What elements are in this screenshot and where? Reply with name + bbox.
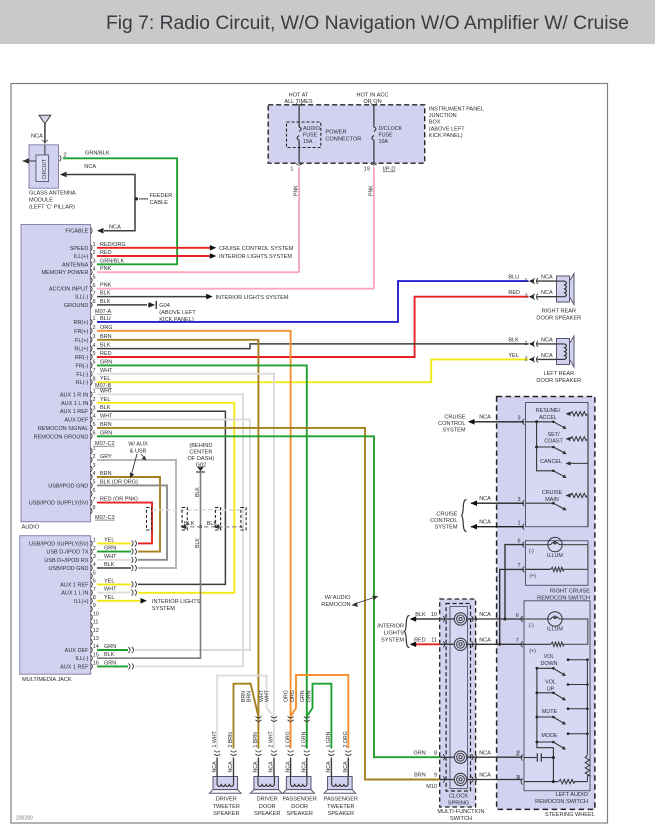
svg-text:NCA: NCA xyxy=(479,773,491,779)
svg-text:6: 6 xyxy=(517,538,520,544)
svg-text:DOOR SPEAKER: DOOR SPEAKER xyxy=(536,316,581,322)
svg-text:KICK PANEL): KICK PANEL) xyxy=(429,133,463,139)
svg-text:1 BRN: 1 BRN xyxy=(253,732,259,748)
svg-text:INTERIOR LIGHTS SYSTEM: INTERIOR LIGHTS SYSTEM xyxy=(216,295,289,301)
svg-text:NCA: NCA xyxy=(31,134,43,140)
svg-text:1: 1 xyxy=(93,538,96,544)
svg-text:4: 4 xyxy=(93,562,96,568)
svg-text:M07-C3: M07-C3 xyxy=(95,515,115,521)
svg-text:AUX 1 REF: AUX 1 REF xyxy=(60,582,89,588)
svg-text:DOOR: DOOR xyxy=(259,804,276,810)
svg-text:2: 2 xyxy=(524,294,527,300)
svg-text:W/ AUX: W/ AUX xyxy=(128,442,148,448)
svg-text:8: 8 xyxy=(93,376,96,382)
svg-text:AUX DEF: AUX DEF xyxy=(65,648,89,654)
svg-text:6: 6 xyxy=(93,283,96,289)
svg-text:6: 6 xyxy=(93,431,96,437)
svg-text:6: 6 xyxy=(93,488,96,494)
svg-text:1: 1 xyxy=(517,521,520,527)
svg-text:2 WHT: 2 WHT xyxy=(269,731,275,748)
svg-text:POWER: POWER xyxy=(325,130,346,136)
svg-text:NCA: NCA xyxy=(253,761,259,772)
svg-text:6: 6 xyxy=(516,613,519,619)
svg-text:COAST: COAST xyxy=(544,439,563,445)
svg-text:ILLUM: ILLUM xyxy=(547,627,563,633)
svg-text:1: 1 xyxy=(93,242,96,248)
svg-text:D/CLOCK: D/CLOCK xyxy=(379,126,403,132)
svg-text:I/P-D: I/P-D xyxy=(383,167,396,173)
svg-text:SPEAKER: SPEAKER xyxy=(286,811,312,817)
svg-text:RIGHT CRUISE: RIGHT CRUISE xyxy=(550,588,590,594)
svg-text:BLK: BLK xyxy=(104,652,115,658)
svg-text:ANTENNA: ANTENNA xyxy=(62,262,89,268)
svg-text:NCA: NCA xyxy=(109,225,121,231)
svg-text:1: 1 xyxy=(93,389,96,395)
svg-text:ORG: ORG xyxy=(290,690,296,702)
svg-text:(-): (-) xyxy=(529,548,534,554)
svg-text:ORG: ORG xyxy=(284,690,290,702)
svg-text:2: 2 xyxy=(93,325,96,331)
svg-text:MEMORY POWER: MEMORY POWER xyxy=(41,270,88,276)
svg-text:(+): (+) xyxy=(529,574,536,580)
svg-text:8: 8 xyxy=(434,750,437,756)
svg-text:WHT: WHT xyxy=(265,689,271,702)
svg-text:FUSE: FUSE xyxy=(303,133,318,139)
svg-text:ACCEL: ACCEL xyxy=(539,415,557,421)
svg-text:9: 9 xyxy=(93,603,96,609)
svg-text:CONNECTOR: CONNECTOR xyxy=(325,137,361,143)
svg-text:BLK: BLK xyxy=(104,562,115,568)
svg-text:1: 1 xyxy=(93,445,96,451)
svg-text:NCA: NCA xyxy=(285,761,291,772)
svg-text:Fig 7: Radio Circuit, W/O Navi: Fig 7: Radio Circuit, W/O Navigation W/O… xyxy=(106,13,629,34)
svg-text:DRIVER: DRIVER xyxy=(257,797,278,803)
svg-text:MULTI-FUNCTION: MULTI-FUNCTION xyxy=(437,809,484,815)
svg-text:2: 2 xyxy=(93,546,96,552)
svg-text:ILL(+): ILL(+) xyxy=(74,254,89,260)
svg-text:CIRCUIT: CIRCUIT xyxy=(42,159,48,179)
svg-text:1 WHT: 1 WHT xyxy=(212,731,218,748)
svg-text:10: 10 xyxy=(431,612,437,618)
svg-text:SPEAKER: SPEAKER xyxy=(254,811,280,817)
svg-text:JUNCTION: JUNCTION xyxy=(429,113,457,119)
svg-text:CRUISE CONTROL SYSTEM: CRUISE CONTROL SYSTEM xyxy=(219,246,294,252)
svg-text:AUX 1 REF: AUX 1 REF xyxy=(60,409,89,415)
svg-text:7: 7 xyxy=(93,587,96,593)
svg-text:CENTER: CENTER xyxy=(189,449,212,455)
svg-text:RESUME/: RESUME/ xyxy=(536,408,561,414)
svg-text:NCA: NCA xyxy=(479,638,491,644)
svg-text:INTERIOR LIGHTS SYSTEM: INTERIOR LIGHTS SYSTEM xyxy=(219,254,292,260)
svg-text:ILL(-): ILL(-) xyxy=(75,656,88,662)
svg-text:FEEDER: FEEDER xyxy=(150,193,173,199)
svg-text:13: 13 xyxy=(93,636,99,642)
svg-text:RR(-): RR(-) xyxy=(75,355,89,361)
svg-text:6: 6 xyxy=(93,579,96,585)
svg-text:2 GRN: 2 GRN xyxy=(302,731,308,747)
svg-text:OF DASH): OF DASH) xyxy=(188,456,215,462)
svg-text:4: 4 xyxy=(93,343,96,349)
svg-text:FR(+): FR(+) xyxy=(74,329,88,335)
svg-text:PNK: PNK xyxy=(368,185,374,196)
svg-text:RIGHT REAR: RIGHT REAR xyxy=(542,309,576,315)
svg-text:BLU: BLU xyxy=(508,275,519,281)
svg-text:SPEED: SPEED xyxy=(70,246,89,252)
svg-text:LEFT REAR: LEFT REAR xyxy=(543,371,574,377)
svg-text:M10: M10 xyxy=(426,784,437,790)
svg-text:9: 9 xyxy=(434,773,437,779)
svg-text:CABLE: CABLE xyxy=(150,200,169,206)
svg-text:3: 3 xyxy=(93,334,96,340)
svg-text:BLK: BLK xyxy=(415,612,426,618)
svg-text:ACC/ON INPUT: ACC/ON INPUT xyxy=(49,287,89,293)
svg-text:MUTE: MUTE xyxy=(542,709,558,715)
svg-text:M07-C2: M07-C2 xyxy=(95,441,115,447)
svg-text:5: 5 xyxy=(93,275,96,281)
svg-text:GROUND: GROUND xyxy=(64,303,88,309)
svg-text:BLK: BLK xyxy=(100,343,111,349)
svg-text:BLK: BLK xyxy=(100,299,111,305)
svg-text:(BEHIND: (BEHIND xyxy=(189,443,212,449)
svg-text:MODE: MODE xyxy=(541,733,558,739)
svg-text:7: 7 xyxy=(517,563,520,569)
svg-text:DOOR: DOOR xyxy=(291,804,308,810)
svg-text:(ABOVE LEFT: (ABOVE LEFT xyxy=(429,126,465,132)
svg-text:VOL: VOL xyxy=(544,654,555,660)
svg-text:CONTROL: CONTROL xyxy=(438,421,465,427)
svg-text:LIGHTS: LIGHTS xyxy=(384,631,404,637)
svg-text:1: 1 xyxy=(290,167,293,173)
svg-text:G04: G04 xyxy=(159,303,170,309)
svg-text:8: 8 xyxy=(93,299,96,305)
svg-text:6: 6 xyxy=(93,360,96,366)
svg-text:YEL: YEL xyxy=(508,353,518,359)
svg-text:NCA: NCA xyxy=(541,337,553,343)
svg-text:5: 5 xyxy=(93,570,96,576)
svg-text:2: 2 xyxy=(517,751,520,757)
svg-text:M07-A: M07-A xyxy=(95,309,112,315)
svg-text:PASSENGER: PASSENGER xyxy=(282,797,316,803)
svg-text:INTERIOR LIGHTS: INTERIOR LIGHTS xyxy=(152,599,201,605)
svg-text:NCA: NCA xyxy=(541,290,553,296)
svg-text:NCA: NCA xyxy=(326,761,332,772)
svg-text:NCA: NCA xyxy=(343,761,349,772)
svg-text:15A: 15A xyxy=(303,139,313,145)
svg-text:NCA: NCA xyxy=(269,761,275,772)
svg-text:3: 3 xyxy=(93,463,96,469)
svg-text:(+): (+) xyxy=(529,648,536,654)
svg-text:(-): (-) xyxy=(529,623,534,629)
svg-text:MODULE: MODULE xyxy=(29,198,53,204)
svg-text:3: 3 xyxy=(517,497,520,503)
svg-text:TWEETER: TWEETER xyxy=(327,804,354,810)
svg-text:NCA: NCA xyxy=(479,612,491,618)
svg-text:AUX 1 L IN: AUX 1 L IN xyxy=(61,401,88,407)
svg-text:ILL(+): ILL(+) xyxy=(74,599,89,605)
svg-text:SPEAKER: SPEAKER xyxy=(213,811,239,817)
svg-text:HOT AT: HOT AT xyxy=(289,93,309,99)
svg-text:11: 11 xyxy=(93,620,99,626)
svg-text:USB/IPOD GND: USB/IPOD GND xyxy=(48,566,88,572)
svg-text:7: 7 xyxy=(516,638,519,644)
svg-text:ILLUM: ILLUM xyxy=(547,553,563,559)
svg-text:19: 19 xyxy=(364,167,370,173)
svg-text:DOOR SPEAKER: DOOR SPEAKER xyxy=(536,378,581,384)
svg-text:SYSTEM: SYSTEM xyxy=(381,638,404,644)
svg-text:SYSTEM: SYSTEM xyxy=(442,428,465,434)
svg-text:SET/: SET/ xyxy=(548,432,560,438)
svg-text:CONTROL: CONTROL xyxy=(430,518,457,524)
svg-text:ALL TIMES: ALL TIMES xyxy=(284,99,313,105)
svg-text:10: 10 xyxy=(93,611,99,617)
svg-text:NCA: NCA xyxy=(228,761,234,772)
svg-text:CRUISE: CRUISE xyxy=(436,512,457,518)
svg-text:SWITCH: SWITCH xyxy=(450,816,472,822)
svg-text:8: 8 xyxy=(93,505,96,511)
svg-text:& USB: & USB xyxy=(130,449,147,455)
svg-text:7: 7 xyxy=(93,291,96,297)
svg-text:PNK: PNK xyxy=(294,185,300,196)
svg-text:NCA: NCA xyxy=(479,415,491,421)
svg-text:GRN: GRN xyxy=(413,750,425,756)
svg-text:VOL: VOL xyxy=(545,680,556,686)
svg-text:2: 2 xyxy=(524,356,527,362)
svg-text:RL(+): RL(+) xyxy=(74,347,88,353)
svg-text:AUX 1 L IN: AUX 1 L IN xyxy=(61,591,88,597)
svg-text:NCA: NCA xyxy=(479,496,491,502)
svg-text:GLASS ANTENNA: GLASS ANTENNA xyxy=(29,191,76,197)
svg-text:2: 2 xyxy=(93,250,96,256)
svg-text:1 ORG: 1 ORG xyxy=(285,731,291,747)
svg-text:USB/IPOD SUPPLY(5V): USB/IPOD SUPPLY(5V) xyxy=(29,541,89,547)
svg-text:AUX 1 R IN: AUX 1 R IN xyxy=(60,392,88,398)
svg-text:BLK: BLK xyxy=(100,291,111,297)
svg-text:TWEETER: TWEETER xyxy=(213,804,240,810)
svg-text:NCA: NCA xyxy=(302,761,308,772)
svg-text:12: 12 xyxy=(93,628,99,634)
svg-text:7: 7 xyxy=(93,368,96,374)
svg-text:1: 1 xyxy=(524,278,527,284)
svg-text:4: 4 xyxy=(93,266,96,272)
svg-text:3: 3 xyxy=(93,259,96,265)
svg-text:8: 8 xyxy=(93,595,96,601)
svg-text:REMOCON SIGNAL: REMOCON SIGNAL xyxy=(38,426,88,432)
svg-text:F/CABLE: F/CABLE xyxy=(65,229,88,235)
svg-text:DOWN: DOWN xyxy=(540,661,557,667)
svg-text:SPEAKER: SPEAKER xyxy=(328,811,354,817)
svg-text:5: 5 xyxy=(93,351,96,357)
svg-text:LEFT AUDIO: LEFT AUDIO xyxy=(555,792,588,798)
svg-text:1 GRN: 1 GRN xyxy=(326,731,332,747)
svg-text:3: 3 xyxy=(517,416,520,422)
svg-text:GRN/BLK: GRN/BLK xyxy=(100,258,124,264)
svg-text:MULTIMEDIA JACK: MULTIMEDIA JACK xyxy=(22,677,72,683)
svg-text:REMOCON GROUND: REMOCON GROUND xyxy=(34,434,89,440)
svg-text:200280: 200280 xyxy=(16,816,33,822)
svg-text:BOX: BOX xyxy=(429,120,441,126)
svg-text:DRIVER: DRIVER xyxy=(216,797,237,803)
svg-text:REMOCON SWITCH: REMOCON SWITCH xyxy=(535,799,588,805)
svg-text:SYSTEM: SYSTEM xyxy=(434,525,457,531)
svg-text:2 BRN: 2 BRN xyxy=(228,732,234,748)
svg-text:11: 11 xyxy=(431,638,437,644)
svg-text:GRN: GRN xyxy=(300,690,306,702)
svg-text:RL(-): RL(-) xyxy=(76,380,89,386)
svg-text:5: 5 xyxy=(93,422,96,428)
svg-text:10A: 10A xyxy=(379,139,389,145)
svg-text:4: 4 xyxy=(93,414,96,420)
svg-text:BLK: BLK xyxy=(195,538,201,548)
svg-text:CRUISE: CRUISE xyxy=(444,415,465,421)
svg-text:AUDIO: AUDIO xyxy=(22,524,40,530)
svg-text:FL(+): FL(+) xyxy=(75,338,88,344)
svg-text:ILL(-): ILL(-) xyxy=(75,295,88,301)
svg-text:3: 3 xyxy=(517,775,520,781)
svg-text:1: 1 xyxy=(93,316,96,322)
svg-text:GRN/BLK: GRN/BLK xyxy=(85,150,110,156)
svg-text:NCA: NCA xyxy=(479,520,491,526)
svg-text:NCA: NCA xyxy=(212,761,218,772)
svg-text:SYSTEM: SYSTEM xyxy=(152,606,175,612)
svg-text:FR(-): FR(-) xyxy=(75,363,88,369)
svg-text:CANCEL: CANCEL xyxy=(540,459,562,465)
svg-text:USB D-/IPOD TX: USB D-/IPOD TX xyxy=(46,550,88,556)
svg-text:(ABOVE LEFT: (ABOVE LEFT xyxy=(159,310,196,316)
svg-text:NCA: NCA xyxy=(84,164,96,170)
svg-text:REMOCON: REMOCON xyxy=(321,602,350,608)
svg-text:AUDIO: AUDIO xyxy=(303,126,320,132)
svg-text:3: 3 xyxy=(93,554,96,560)
svg-text:BLK: BLK xyxy=(195,487,201,497)
svg-text:2: 2 xyxy=(93,397,96,403)
svg-text:1: 1 xyxy=(524,341,527,347)
svg-text:W/ AUDIO: W/ AUDIO xyxy=(325,595,351,601)
svg-text:BLK: BLK xyxy=(100,405,111,411)
svg-text:BRN: BRN xyxy=(414,773,426,779)
svg-text:AUX DEF: AUX DEF xyxy=(64,418,88,424)
svg-text:STEERING WHEEL: STEERING WHEEL xyxy=(545,812,595,818)
svg-text:MAIN: MAIN xyxy=(545,497,559,503)
svg-text:2: 2 xyxy=(93,454,96,460)
svg-text:FUSE: FUSE xyxy=(379,133,394,139)
svg-text:AUX 1 REF: AUX 1 REF xyxy=(60,664,89,670)
svg-text:NCA: NCA xyxy=(541,353,553,359)
svg-text:USB D+/IPOD RX: USB D+/IPOD RX xyxy=(44,558,88,564)
svg-text:SPRING: SPRING xyxy=(448,801,469,807)
svg-text:BRN: BRN xyxy=(247,691,253,702)
svg-text:4: 4 xyxy=(93,471,96,477)
svg-text:15: 15 xyxy=(93,652,99,658)
svg-text:3: 3 xyxy=(93,405,96,411)
svg-text:USB/IPOD SUPPLY(5V): USB/IPOD SUPPLY(5V) xyxy=(29,501,89,507)
svg-text:USB/IPOD GND: USB/IPOD GND xyxy=(48,483,88,489)
svg-text:PASSENGER: PASSENGER xyxy=(324,797,358,803)
svg-text:2 ORG: 2 ORG xyxy=(343,731,349,747)
svg-text:5: 5 xyxy=(93,480,96,486)
svg-text:CLOCK: CLOCK xyxy=(449,794,469,800)
svg-text:BLK: BLK xyxy=(508,337,519,343)
svg-text:RR(+): RR(+) xyxy=(73,320,88,326)
svg-text:(LEFT 'C' PILLAR): (LEFT 'C' PILLAR) xyxy=(29,205,75,211)
svg-text:HOT IN ACC: HOT IN ACC xyxy=(357,93,389,99)
svg-text:INSTRUMENT PANEL: INSTRUMENT PANEL xyxy=(429,107,484,113)
svg-text:NCA: NCA xyxy=(479,750,491,756)
svg-text:7: 7 xyxy=(93,497,96,503)
svg-text:FL(-): FL(-) xyxy=(76,372,88,378)
svg-text:CRUISE: CRUISE xyxy=(542,490,563,496)
svg-text:NCA: NCA xyxy=(541,275,553,281)
svg-text:INTERIOR: INTERIOR xyxy=(377,624,404,630)
svg-text:RED: RED xyxy=(508,290,520,296)
svg-text:GRN: GRN xyxy=(306,690,312,702)
